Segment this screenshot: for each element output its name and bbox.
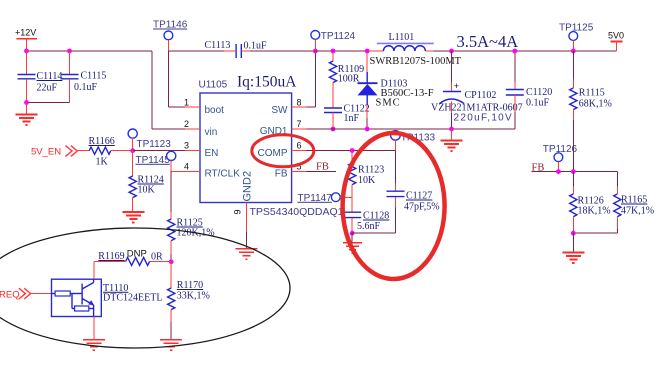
svg-text:10K: 10K: [358, 175, 376, 186]
wire SW riser: [307, 51, 316, 107]
svg-text:22uF: 22uF: [37, 83, 58, 94]
svg-text:1K: 1K: [96, 157, 109, 168]
node SW junction: [313, 49, 318, 54]
testpoint TP1133: [391, 131, 436, 151]
node EN junction: [130, 148, 135, 153]
pin 8 SW: [271, 98, 306, 117]
capacitor C1120: [506, 51, 553, 129]
svg-text:R1115: R1115: [579, 88, 605, 99]
ground under R1126: [562, 233, 584, 263]
diode D1103: [358, 51, 434, 129]
svg-text:+12V: +12V: [15, 28, 36, 38]
ground GND1: [441, 129, 463, 151]
capacitor CP1102: [431, 51, 523, 129]
wire GND1 net: [307, 128, 515, 130]
svg-text:C1114: C1114: [37, 71, 63, 82]
svg-text:18K,1%: 18K,1%: [578, 206, 611, 217]
node C1115 top: [67, 49, 72, 54]
wire T1110 collector riser: [94, 261, 126, 279]
svg-text:TPS54340QDDAQ1: TPS54340QDDAQ1: [250, 206, 344, 218]
pin 1 boot: [184, 98, 224, 117]
wire cap bottoms: [27, 102, 70, 104]
IC U1105 TPS54340 buck regulator: [199, 80, 292, 203]
svg-text:TP1124: TP1124: [321, 31, 356, 42]
svg-text:7: 7: [297, 119, 302, 129]
ground under T1110: [83, 317, 105, 351]
svg-text:SWRB1207S-100MT: SWRB1207S-100MT: [370, 56, 462, 67]
wire EN to pin: [133, 150, 185, 152]
wire FB stub left: [307, 171, 336, 173]
label REQ: [0, 288, 31, 300]
testpoint TP1126: [543, 144, 578, 172]
capacitor C1115: [61, 51, 107, 103]
svg-text:68K,1%: 68K,1%: [579, 99, 612, 110]
svg-text:TP1123: TP1123: [137, 139, 172, 150]
testpoint TP1123: [128, 129, 171, 151]
transistor T1110: [52, 279, 163, 316]
svg-text:1: 1: [184, 98, 189, 108]
testpoint TP1146: [153, 20, 188, 52]
wire rail right of L1101: [434, 50, 617, 52]
node R1126 top junction: [571, 169, 576, 174]
svg-text:C1128: C1128: [363, 211, 389, 222]
wire C1127 bottom to C1128: [352, 232, 395, 234]
svg-text:0.1uF: 0.1uF: [74, 82, 98, 93]
highlight ellipse transistor block: [0, 228, 290, 348]
pin 6 COMP: [258, 141, 307, 160]
svg-text:SMC: SMC: [376, 98, 401, 109]
capacitor C1113: [205, 40, 268, 58]
resistor R1166: [77, 136, 132, 168]
capacitor C1114: [18, 51, 63, 103]
node FB divider bottom: [571, 231, 576, 236]
inductor L1101: [369, 32, 462, 67]
svg-text:47pF,5%: 47pF,5%: [404, 202, 440, 213]
svg-text:2: 2: [184, 119, 189, 129]
node D1103 anode: [365, 127, 370, 132]
pin 4 RT/CLK: [184, 162, 240, 180]
node C1114 bottom: [24, 100, 29, 105]
wire sw rail: [250, 50, 315, 52]
svg-text:4: 4: [184, 162, 189, 172]
resistor R1170: [168, 262, 210, 340]
highlight ellipse compensation network: [343, 133, 445, 279]
capacitor C1122: [324, 104, 370, 130]
resistor R1123: [349, 151, 385, 213]
node COMP junction: [350, 148, 355, 153]
node TP1126 junction: [556, 169, 561, 174]
svg-text:U1105: U1105: [199, 80, 228, 91]
label 5V_EN: [31, 146, 77, 158]
ground under R1124: [122, 212, 144, 223]
svg-text:EN: EN: [205, 148, 219, 159]
testpoint TP1145: [136, 151, 176, 171]
svg-text:RT/CLK: RT/CLK: [205, 168, 241, 179]
svg-text:GND2: GND2: [242, 171, 254, 202]
ground under C1128: [343, 233, 362, 253]
svg-text:R1123: R1123: [358, 165, 384, 176]
testpoint TP1125: [559, 23, 594, 52]
wire boot net: [168, 51, 236, 107]
power 5V0: [608, 31, 624, 52]
ground under R1170: [160, 340, 182, 351]
svg-text:C1113: C1113: [205, 40, 231, 51]
svg-text:FB: FB: [316, 161, 329, 172]
node CP1102 top: [449, 49, 454, 54]
svg-text:TP1146: TP1146: [153, 20, 188, 31]
resistor R1115: [570, 51, 612, 172]
wire top rail left: [27, 51, 186, 129]
svg-text:47K,1%: 47K,1%: [621, 206, 654, 217]
testpoint TP1124: [311, 31, 356, 51]
svg-text:6: 6: [297, 141, 302, 151]
ground under C1114: [16, 103, 38, 126]
svg-text:0.1uF: 0.1uF: [244, 41, 268, 52]
node R1125/R1169/R1170 junction: [169, 259, 174, 264]
capacitor C1128: [343, 211, 389, 234]
svg-text:SW: SW: [271, 105, 288, 116]
wire RT/CLK net: [171, 172, 185, 220]
testpoint TP1147: [298, 193, 353, 204]
svg-text:220uF,10V: 220uF,10V: [454, 113, 514, 124]
pin 7 GND1: [260, 119, 307, 137]
power +12V: [15, 28, 37, 52]
resistor R1169: [98, 248, 171, 265]
svg-text:0.1uF: 0.1uF: [526, 98, 550, 109]
svg-text:C1127: C1127: [406, 191, 432, 202]
node 5V0 junction: [571, 49, 576, 54]
svg-text:R1165: R1165: [621, 195, 647, 206]
wire R1126/R1165 bottoms: [573, 232, 617, 234]
pin 9 GND2: [233, 171, 254, 232]
svg-text:DTC124EETL: DTC124EETL: [103, 292, 162, 303]
node C1128 bottom: [350, 231, 355, 236]
pin 5 FB: [275, 162, 307, 180]
wire FB net right: [532, 172, 618, 186]
svg-text:8: 8: [297, 98, 302, 108]
resistor R1109: [329, 51, 364, 108]
svg-text:5.6nF: 5.6nF: [357, 221, 381, 232]
svg-text:boot: boot: [205, 105, 225, 116]
svg-text:FB: FB: [275, 168, 288, 179]
node D1103 top: [365, 49, 370, 54]
node C1122 bottom: [331, 127, 336, 132]
node +12V junction: [24, 49, 29, 54]
svg-text:+: +: [454, 81, 459, 91]
svg-text:R1169: R1169: [98, 251, 124, 262]
svg-text:3: 3: [184, 141, 189, 151]
svg-text:0R: 0R: [151, 252, 163, 263]
svg-text:5V_EN: 5V_EN: [31, 147, 61, 158]
node C1120 top: [512, 49, 517, 54]
resistor R1165: [614, 186, 654, 233]
resistor R1124: [129, 151, 164, 212]
resistor R1125: [168, 218, 215, 262]
pin 3 EN: [184, 141, 218, 160]
svg-text:R1166: R1166: [89, 136, 115, 147]
svg-text:Iq:150uA: Iq:150uA: [237, 74, 297, 91]
svg-text:R1170: R1170: [177, 280, 203, 291]
svg-text:10K: 10K: [138, 185, 156, 196]
svg-text:1nF: 1nF: [344, 113, 360, 124]
svg-text:vin: vin: [205, 127, 218, 138]
svg-text:COMP: COMP: [258, 148, 288, 159]
svg-text:CP1102: CP1102: [465, 90, 497, 101]
node R1109 top: [331, 49, 336, 54]
svg-text:TP1147: TP1147: [298, 193, 333, 204]
svg-text:C1115: C1115: [81, 71, 107, 82]
svg-text:TP1125: TP1125: [559, 23, 594, 34]
svg-text:L1101: L1101: [389, 32, 415, 43]
resistor R1126: [570, 172, 611, 234]
node CP1102 bottom: [449, 127, 454, 132]
svg-text:3.5A~4A: 3.5A~4A: [457, 32, 519, 51]
svg-text:REQ: REQ: [0, 290, 20, 301]
pin 2 vin: [184, 119, 217, 138]
svg-text:5V0: 5V0: [608, 31, 624, 41]
capacitor C1127: [387, 183, 440, 233]
svg-text:C1120: C1120: [526, 87, 552, 98]
svg-text:DNP: DNP: [127, 248, 147, 259]
ground under GND2: [236, 232, 258, 259]
svg-text:33K,1%: 33K,1%: [177, 291, 210, 302]
wire COMP net: [307, 151, 396, 184]
highlight ellipse COMP: [252, 135, 314, 167]
svg-text:9: 9: [233, 209, 243, 214]
svg-text:TP1145: TP1145: [136, 155, 171, 166]
svg-text:100R: 100R: [338, 74, 360, 85]
wire top rail mid: [315, 50, 369, 52]
wire REQ to T1110: [31, 293, 52, 295]
